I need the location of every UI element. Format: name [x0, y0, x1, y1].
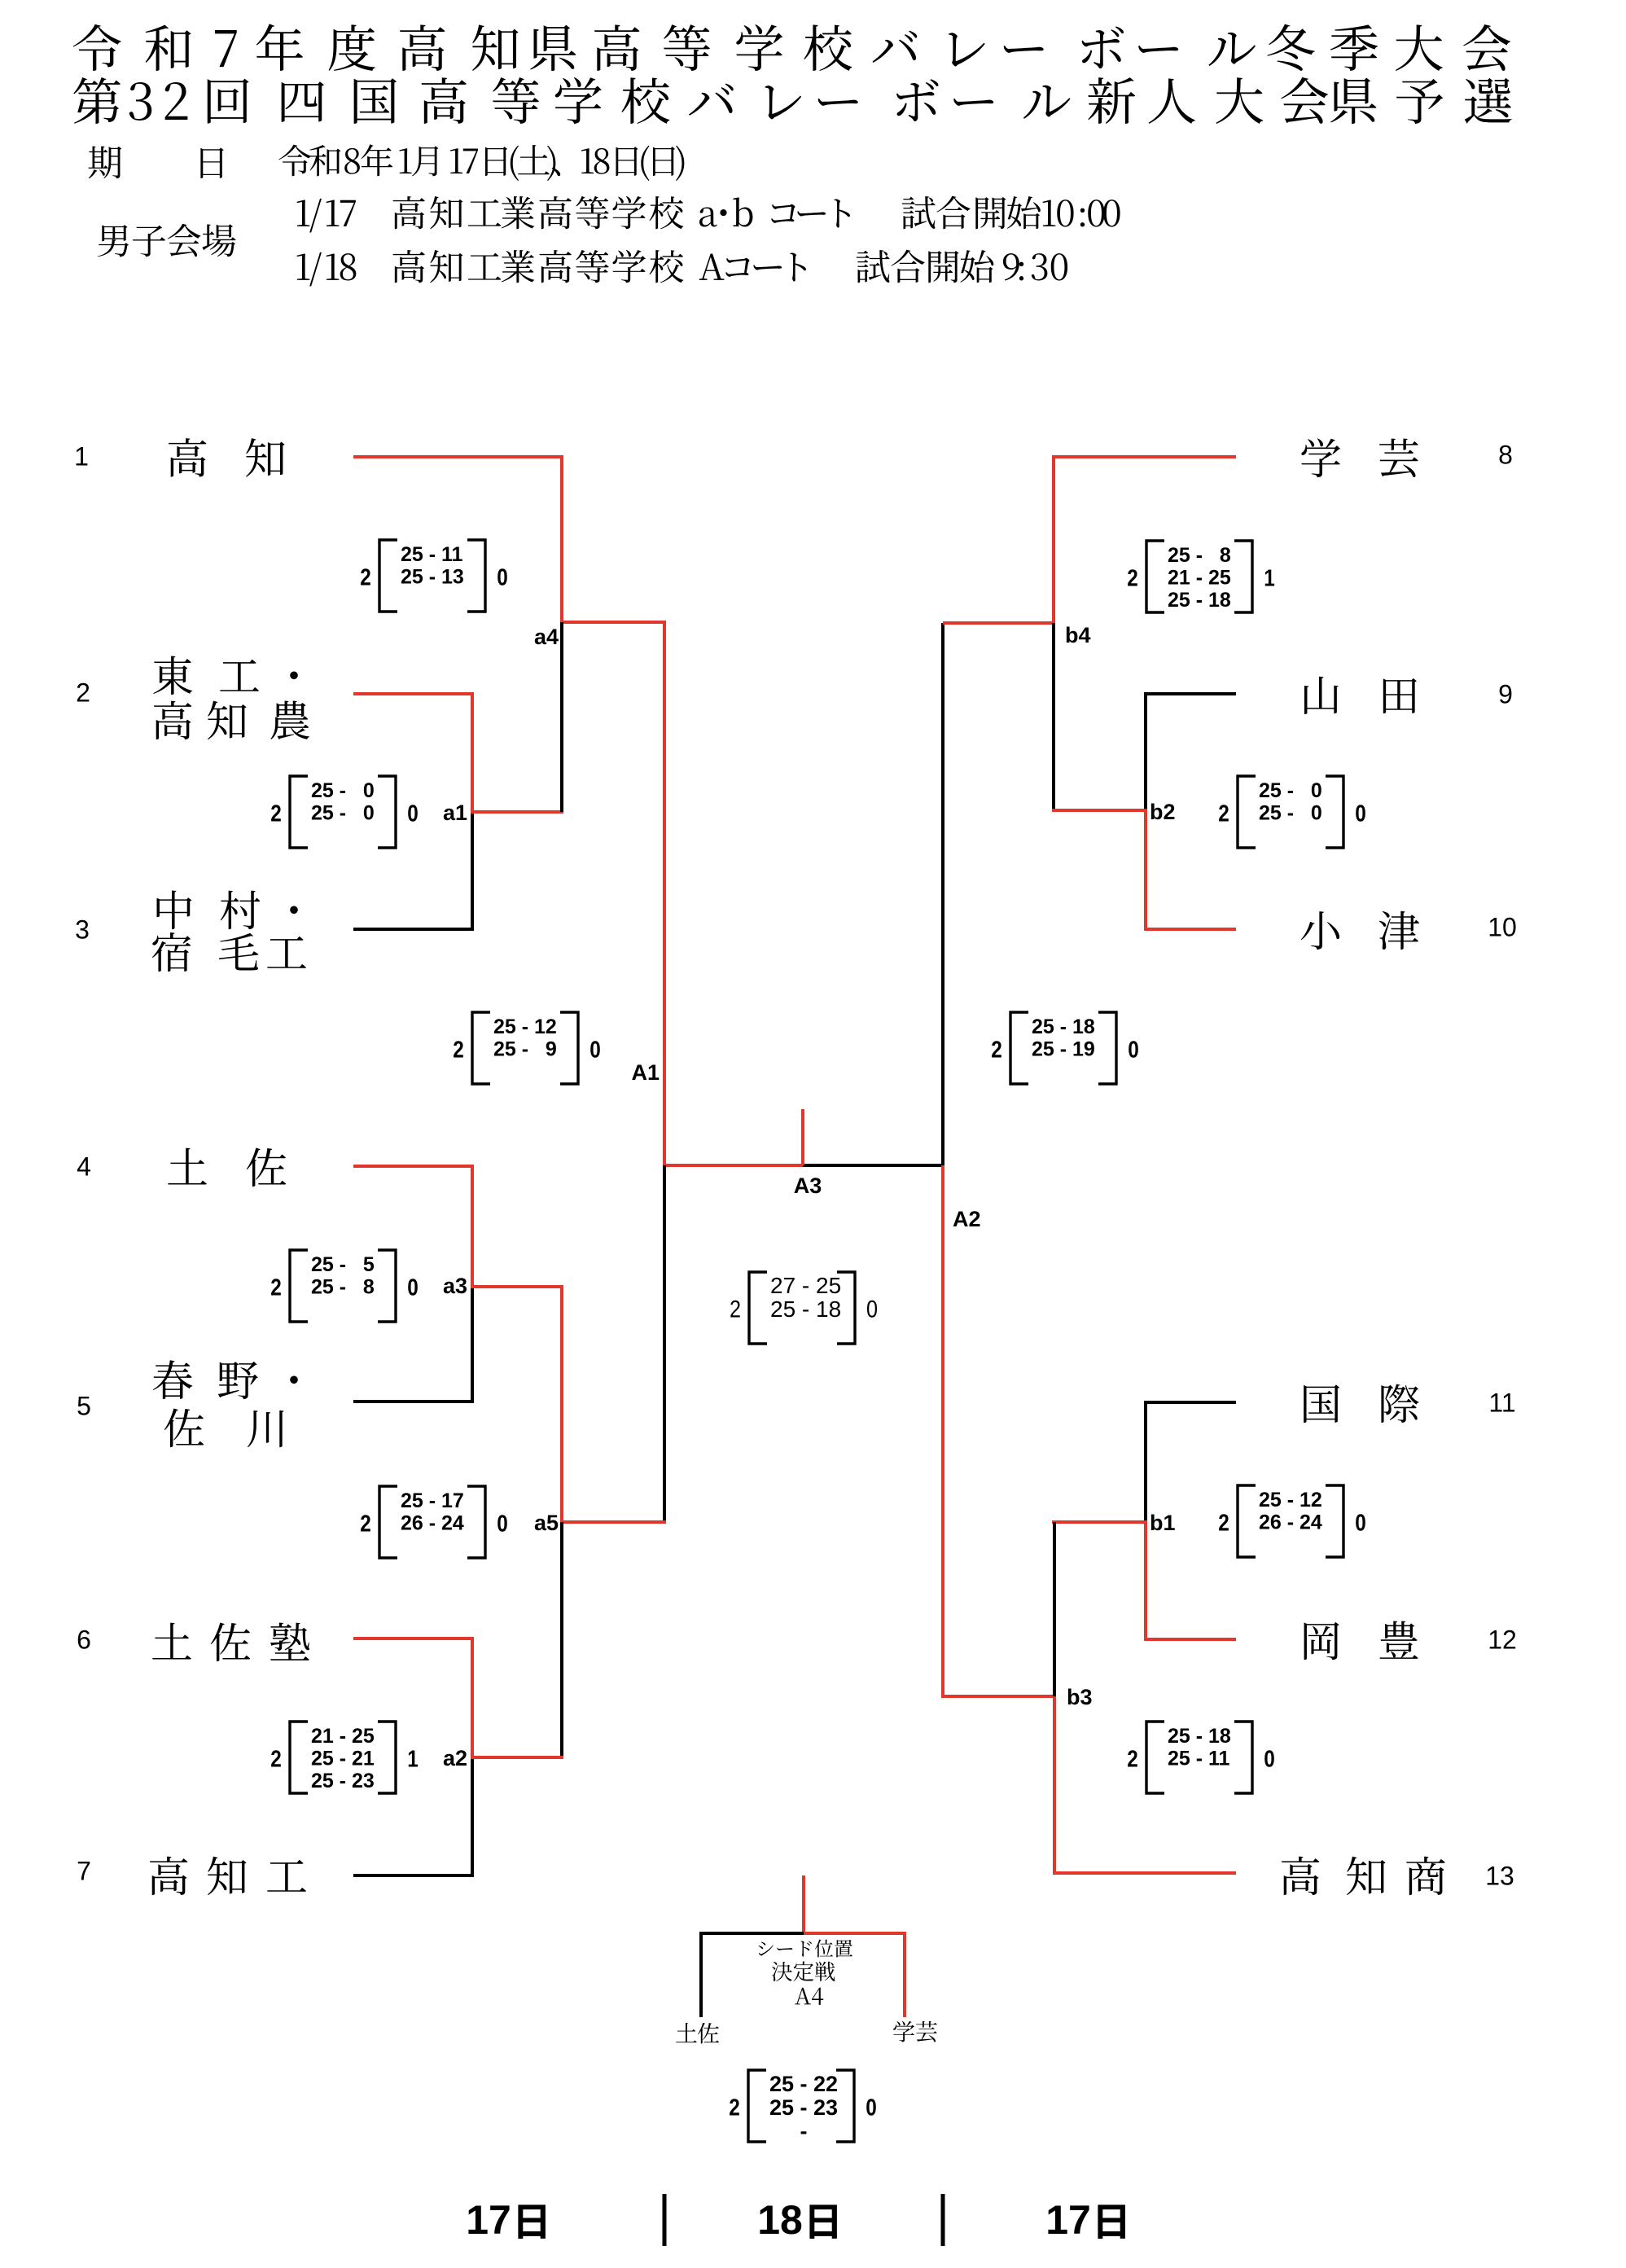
- svg-text:-: -: [769, 2119, 808, 2143]
- svg-text:4: 4: [77, 1152, 91, 1182]
- svg-text:2: 2: [360, 564, 371, 590]
- svg-text:0: 0: [497, 564, 508, 590]
- seed-match title シード位置: [758, 1942, 773, 1956]
- team 12 岡豊: [1304, 1622, 1339, 1660]
- wire match b3 black upper: [1053, 1522, 1056, 1696]
- wire seed-match A4 champion stub (red): [802, 1875, 805, 1933]
- svg-text:26 - 24: 26 - 24: [401, 1512, 464, 1535]
- svg-text:2: 2: [1127, 565, 1138, 591]
- team 2 東工・高知農 line1: [153, 656, 192, 695]
- svg-text:25 - 19: 25 - 19: [1032, 1038, 1095, 1061]
- svg-text:21 - 25: 21 - 25: [311, 1725, 375, 1748]
- svg-text:2: 2: [1218, 801, 1229, 827]
- wire match b3 winner path (red): [1054, 1696, 1236, 1873]
- svg-text:2: 2: [991, 1037, 1002, 1063]
- svg-text:0: 0: [866, 2095, 877, 2121]
- wire seed-match A4 left arm (black): [701, 1933, 804, 2017]
- svg-text:25 - 12: 25 - 12: [493, 1016, 557, 1038]
- date label 期日: [88, 146, 121, 178]
- wire match A1 black lower: [663, 1165, 666, 1522]
- svg-text:25 - 13: 25 - 13: [401, 566, 464, 589]
- venue line 2: [297, 253, 310, 280]
- svg-text:a1: a1: [443, 801, 467, 825]
- svg-text:25 - 11: 25 - 11: [401, 543, 463, 566]
- wire match A2 red (winner from b3): [943, 1165, 1056, 1696]
- svg-text:25 - 23: 25 - 23: [769, 2095, 838, 2120]
- wire match a4 loser side (black): [560, 622, 563, 812]
- svg-text:25 - 8: 25 - 8: [311, 1276, 375, 1299]
- wire match a2 loser side (black): [353, 1759, 472, 1875]
- svg-text:18: 18: [757, 2197, 803, 2243]
- wire match a1 winner path (red): [353, 694, 563, 812]
- score box b1: [1238, 1485, 1343, 1557]
- svg-text:1: 1: [407, 1746, 419, 1772]
- team 3 中村・宿毛工 line2: [152, 932, 191, 972]
- wire match a5 red (winner from a3): [562, 1287, 666, 1522]
- svg-text:a2: a2: [443, 1746, 467, 1770]
- svg-text:12: 12: [1488, 1625, 1517, 1655]
- svg-text:13: 13: [1485, 1862, 1514, 1891]
- svg-text:b2: b2: [1150, 800, 1176, 824]
- team 5 春野・佐川 line1: [153, 1360, 193, 1399]
- svg-text:9: 9: [1498, 680, 1513, 709]
- team 7 高知工: [150, 1857, 187, 1896]
- wire match b2 black upper (team 9): [1146, 694, 1236, 810]
- date value: [278, 145, 311, 177]
- svg-text:17: 17: [1045, 2197, 1091, 2243]
- svg-text:2: 2: [729, 2095, 740, 2121]
- score box a4: [379, 540, 485, 612]
- svg-text:0: 0: [866, 1295, 878, 1323]
- svg-text:26 - 24: 26 - 24: [1259, 1511, 1322, 1534]
- svg-text:25 - 23: 25 - 23: [311, 1770, 375, 1792]
- svg-text:1: 1: [1264, 565, 1275, 591]
- svg-text:6: 6: [77, 1625, 91, 1655]
- svg-text:25 - 18: 25 - 18: [1032, 1016, 1095, 1038]
- wire match a3 winner path (red): [353, 1166, 563, 1287]
- svg-text:a5: a5: [534, 1511, 559, 1535]
- wire match b4 loser side (black): [1052, 623, 1055, 810]
- svg-text:25 - 0: 25 - 0: [1259, 779, 1322, 802]
- svg-text:25 - 0: 25 - 0: [1259, 802, 1322, 825]
- svg-text:b4: b4: [1065, 623, 1091, 647]
- team 4 土佐: [168, 1148, 207, 1185]
- svg-text:0: 0: [407, 801, 419, 827]
- svg-text:0: 0: [407, 1274, 419, 1301]
- wire match A1 red (winner from a4): [664, 622, 804, 1165]
- wire match b1 winner path (red): [1052, 1522, 1236, 1639]
- svg-text:0: 0: [1128, 1037, 1139, 1063]
- svg-text:A1: A1: [631, 1060, 660, 1085]
- team 11 国際: [1304, 1384, 1339, 1423]
- svg-text:21 - 25: 21 - 25: [1168, 567, 1231, 590]
- venue label 男子会場: [98, 225, 129, 257]
- svg-text:2: 2: [730, 1295, 741, 1323]
- svg-text:25 - 12: 25 - 12: [1259, 1489, 1322, 1511]
- svg-text:2: 2: [1218, 1510, 1229, 1536]
- team 3 中村・宿毛工 line1: [157, 890, 192, 929]
- team 13 高知商: [1282, 1857, 1319, 1896]
- svg-text:2: 2: [76, 678, 90, 708]
- wire match a4 winner path (red): [353, 457, 666, 622]
- seed-match team 学芸: [893, 2021, 914, 2042]
- svg-text:A3: A3: [794, 1173, 822, 1198]
- team 10 小津: [1301, 911, 1339, 950]
- svg-text:b3: b3: [1067, 1685, 1093, 1709]
- svg-text:25 - 18: 25 - 18: [1168, 589, 1231, 612]
- svg-text:2: 2: [453, 1037, 464, 1063]
- wire match b1 black upper (team 11): [1146, 1402, 1236, 1522]
- seed-match title 決定戦: [772, 1962, 792, 1981]
- svg-text:25 - 0: 25 - 0: [311, 802, 375, 825]
- wire match a1 loser side (black): [353, 814, 472, 929]
- column separator bar 1: [663, 2194, 667, 2246]
- wire match A2 black upper: [941, 623, 944, 1165]
- team 2 東工・高知農 line2: [154, 701, 191, 740]
- svg-text:10: 10: [1488, 913, 1517, 942]
- score box A4 seed match: [748, 2070, 854, 2142]
- team 9 山田: [1304, 677, 1339, 714]
- team 6 土佐塾: [152, 1623, 191, 1660]
- svg-text:25 - 11: 25 - 11: [1168, 1748, 1230, 1770]
- title line 2: [73, 77, 121, 124]
- team 1 高知: [169, 438, 206, 477]
- score box b2: [1238, 776, 1343, 848]
- svg-text:0: 0: [497, 1511, 508, 1537]
- svg-text:25 - 5: 25 - 5: [311, 1253, 375, 1276]
- score box a3: [290, 1250, 396, 1322]
- svg-text:2: 2: [270, 1274, 282, 1301]
- svg-text:11: 11: [1488, 1388, 1515, 1418]
- seed-match label A4: [795, 1988, 811, 2005]
- wire seed-match A4 right arm (red): [804, 1933, 905, 2017]
- title line 1: [73, 24, 121, 71]
- column separator bar 2: [941, 2194, 945, 2246]
- svg-text:25 - 17: 25 - 17: [401, 1489, 464, 1512]
- team 8 学芸: [1301, 438, 1340, 477]
- svg-text:25 - 8: 25 - 8: [1168, 544, 1231, 567]
- svg-text:2: 2: [360, 1511, 371, 1537]
- svg-text:0: 0: [1264, 1746, 1275, 1772]
- svg-text:2: 2: [270, 801, 282, 827]
- wire match a3 loser side (black): [353, 1288, 472, 1402]
- score box b4: [1146, 541, 1252, 612]
- svg-text:25 - 22: 25 - 22: [769, 2072, 838, 2096]
- venue line 1: [297, 200, 310, 226]
- svg-text:a4: a4: [534, 625, 559, 649]
- wire champion stub A3 (red): [801, 1109, 804, 1165]
- score box a5: [379, 1486, 485, 1558]
- score box A3 final: [749, 1272, 855, 1344]
- svg-text:25 - 9: 25 - 9: [493, 1038, 557, 1061]
- svg-text:0: 0: [1355, 1510, 1366, 1536]
- svg-text:25 - 18: 25 - 18: [770, 1296, 841, 1322]
- wire final A3 black half (right): [803, 1164, 943, 1167]
- svg-text:1: 1: [74, 442, 89, 472]
- score box b3: [1146, 1722, 1252, 1793]
- svg-text:27 - 25: 27 - 25: [770, 1273, 841, 1298]
- wire match b4 winner path (red): [943, 457, 1236, 623]
- svg-text:a3: a3: [443, 1274, 467, 1298]
- svg-text:25 - 0: 25 - 0: [311, 779, 375, 802]
- svg-text:17: 17: [466, 2197, 511, 2243]
- wire match a2 winner path (red): [353, 1638, 563, 1757]
- svg-text:A2: A2: [953, 1207, 981, 1231]
- score box a2: [290, 1722, 396, 1793]
- svg-text:2: 2: [1127, 1746, 1138, 1772]
- team 5 春野・佐川 line2: [164, 1408, 204, 1447]
- score box A1 semifinal: [472, 1012, 578, 1084]
- svg-text:2: 2: [270, 1746, 282, 1772]
- svg-text:b1: b1: [1150, 1511, 1176, 1535]
- seed-match team 土佐: [676, 2023, 697, 2042]
- wire match a5 black lower: [560, 1522, 563, 1757]
- svg-text:8: 8: [1498, 441, 1513, 470]
- score box A2 semifinal: [1010, 1012, 1116, 1084]
- svg-text:0: 0: [1355, 801, 1366, 827]
- svg-text:0: 0: [589, 1037, 601, 1063]
- svg-text:7: 7: [77, 1857, 91, 1886]
- svg-text:25 - 18: 25 - 18: [1168, 1725, 1231, 1748]
- score box a1: [290, 776, 396, 848]
- svg-text:3: 3: [75, 915, 90, 945]
- svg-text:5: 5: [77, 1392, 91, 1421]
- svg-text:25 - 21: 25 - 21: [311, 1748, 375, 1770]
- wire match b2 winner path (red): [1052, 810, 1236, 929]
